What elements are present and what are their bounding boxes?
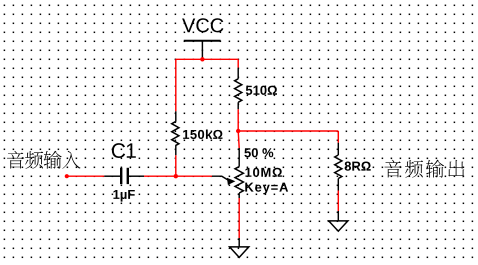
wire C1 to pot wiper — [144, 175, 212, 177]
wire 8R bottom to ground — [337, 191, 339, 212]
wire mid junction to pot top — [238, 131, 239, 148]
wire right branch down to 510 — [237, 59, 239, 67]
wire pot bottom to ground — [238, 198, 240, 238]
wire 150k to main node — [175, 155, 177, 176]
label audio output — [384, 160, 464, 178]
capacitor C1 1uF — [104, 143, 144, 201]
potentiometer 10M wiper arrow — [212, 176, 229, 180]
ground bottom — [230, 238, 249, 257]
potentiometer 10M body — [235, 148, 288, 198]
junction mid node — [236, 129, 240, 133]
label audio input — [7, 151, 81, 169]
input terminal node — [65, 174, 69, 178]
ground right — [329, 211, 348, 231]
resistor 8R — [335, 143, 371, 191]
wire mid junction to 8R — [238, 130, 338, 132]
wire left branch down to 150k — [175, 59, 177, 111]
junction main node — [174, 174, 178, 178]
junction VCC node — [200, 57, 204, 61]
wire 510 to mid junction — [237, 109, 239, 131]
wire VCC horizontal — [176, 58, 238, 60]
resistor 510ohm — [235, 68, 277, 110]
wire input to C1 — [67, 175, 105, 177]
resistor 150k — [172, 111, 223, 155]
wire mid to 8R top — [337, 131, 339, 143]
power symbol VCC — [182, 18, 223, 59]
